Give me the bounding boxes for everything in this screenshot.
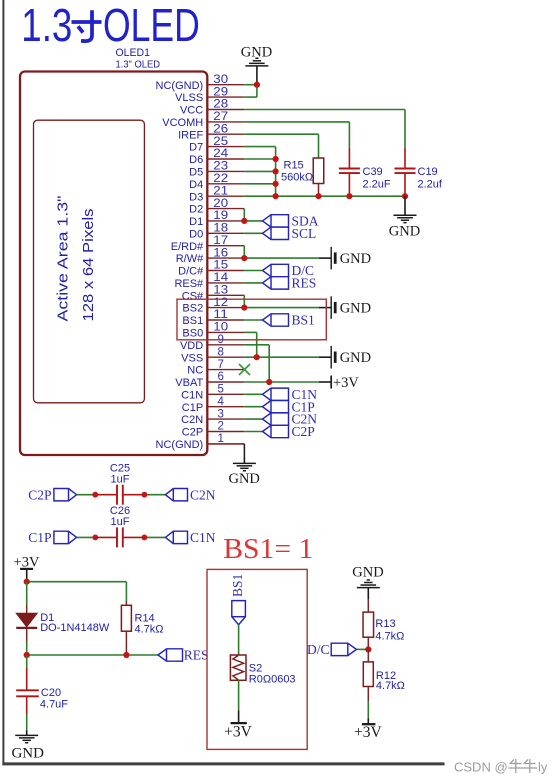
svg-text:D4: D4	[189, 179, 203, 191]
junction C19/bus	[402, 193, 408, 199]
port C1P	[263, 399, 315, 414]
wire D5 pin23	[244, 170, 275, 172]
svg-text:30: 30	[213, 74, 228, 86]
wire down to D1	[26, 582, 28, 605]
wire VDD pin9 down to VBAT	[244, 344, 269, 346]
resistor R12 4.7kΩ	[363, 649, 405, 701]
port C2P	[28, 487, 76, 502]
svg-text:8: 8	[217, 346, 223, 358]
junction D5	[273, 168, 279, 174]
junction R15/bus	[315, 193, 321, 199]
svg-text:1uF: 1uF	[111, 516, 130, 528]
port BS1 (vertical)	[230, 574, 246, 625]
pin 18 (D0)	[189, 223, 244, 241]
junction VDD/VBAT	[266, 379, 272, 385]
svg-text:21: 21	[213, 185, 228, 197]
port C2P	[263, 424, 315, 439]
svg-text:20: 20	[213, 198, 228, 210]
svg-text:560kΩ: 560kΩ	[281, 172, 313, 184]
svg-text:D/C#: D/C#	[178, 266, 204, 278]
component U OLED1 body	[20, 72, 207, 456]
resistor R13 4.7kΩ	[363, 599, 404, 649]
svg-text:VDD: VDD	[180, 340, 203, 352]
junction pin16/17	[241, 255, 247, 261]
svg-text:16: 16	[213, 247, 228, 259]
svg-text:GND: GND	[352, 565, 383, 581]
pin 8 (VSS)	[181, 346, 244, 364]
power ground GND (top, pins 30/29)	[241, 45, 272, 85]
pin 4 (C1P)	[182, 396, 245, 414]
svg-text:1uF: 1uF	[111, 473, 130, 485]
svg-text:14: 14	[213, 272, 228, 284]
pin 28 (VCC)	[180, 99, 244, 117]
wire BS1 pin11	[244, 319, 262, 321]
pin 16 (R/W#)	[176, 247, 245, 265]
junction R14/rail	[123, 652, 129, 658]
svg-text:25: 25	[213, 136, 228, 148]
svg-text:BS1: BS1	[182, 315, 203, 327]
svg-text:17: 17	[213, 235, 228, 247]
svg-text:C39: C39	[363, 166, 383, 178]
svg-text:IREF: IREF	[178, 129, 203, 141]
annotation box BS2/BS1/BS0	[177, 299, 326, 340]
port C1N	[165, 530, 215, 545]
pin 19 (D1)	[189, 210, 244, 228]
wire VSS pin8 to GND	[244, 356, 319, 358]
wire D2 pin20 down to D1	[243, 209, 245, 221]
svg-text:BS1= 1: BS1= 1	[223, 534, 313, 565]
pin 15 (D/C#)	[178, 260, 244, 278]
resistor R14 4.7kΩ	[121, 601, 163, 655]
pin 5 (C1N)	[181, 384, 244, 402]
junction +3V	[24, 579, 30, 585]
svg-text:11: 11	[213, 309, 228, 321]
wire BS1 to S2	[238, 625, 240, 655]
junction pin30/GND	[254, 82, 260, 88]
port C2N	[263, 412, 318, 427]
wire D1 to RES rail	[26, 641, 28, 655]
sheet left border	[2, 0, 4, 765]
port BS1	[263, 313, 315, 328]
svg-text:C1P: C1P	[28, 530, 51, 545]
wire pin4 to port C1P	[244, 406, 262, 408]
wire pin30 to GND junction	[244, 84, 257, 86]
power ground GND (above R13)	[352, 565, 383, 599]
wire VCC pin28 to C19	[244, 109, 405, 111]
svg-text:D0: D0	[189, 228, 203, 240]
svg-text:VLSS: VLSS	[175, 92, 203, 104]
svg-text:19: 19	[213, 210, 228, 222]
pin 14 (RES#)	[174, 272, 244, 290]
svg-text:GND: GND	[340, 350, 371, 366]
wire D0 pin18 to SCL	[244, 232, 262, 234]
svg-text:13: 13	[213, 285, 228, 297]
pin 7 (NC)	[187, 359, 244, 377]
svg-text:CSDN @: CSDN @	[454, 760, 508, 775]
power ground GND (C20)	[11, 731, 44, 762]
svg-text:OLED: OLED	[103, 0, 200, 51]
svg-text:R15: R15	[284, 159, 304, 171]
wire CS# pin13 down	[243, 295, 245, 307]
svg-text:BS0: BS0	[182, 328, 203, 340]
svg-text:C2P: C2P	[28, 487, 51, 502]
wire BS2 pin12 to GND	[244, 307, 319, 309]
wire IREF pin26 to R15	[244, 133, 318, 135]
svg-text:26: 26	[213, 123, 228, 135]
svg-text:128 x 64 Pixels: 128 x 64 Pixels	[81, 209, 97, 322]
pin 6 (VBAT)	[175, 371, 244, 389]
svg-text:+3V: +3V	[354, 724, 382, 741]
capacitor C39 2.2uF	[339, 148, 391, 196]
svg-text:ly: ly	[538, 760, 548, 775]
wire R12 to +3V	[367, 701, 369, 718]
svg-text:C19: C19	[418, 166, 438, 178]
svg-text:10: 10	[213, 322, 228, 334]
wire S2 to +3V	[238, 680, 240, 710]
junction right C25	[142, 492, 148, 498]
port C1N	[263, 387, 318, 402]
svg-text:29: 29	[213, 86, 228, 98]
pin 1 (NC(GND))	[156, 433, 245, 451]
sheet bottom border	[2, 762, 444, 765]
wire pin2 to port C2P	[244, 431, 262, 433]
wire R/W# pin16 to GND	[244, 257, 319, 259]
port D/C (right schematic)	[307, 642, 357, 657]
svg-text:D/C: D/C	[307, 642, 330, 657]
svg-text:D2: D2	[189, 204, 203, 216]
wire C20 to GND	[26, 714, 28, 731]
pin 27 (VCOMH)	[162, 111, 244, 129]
power +3V (R12)	[354, 718, 382, 741]
wire D4 pin22	[244, 183, 275, 185]
svg-text:4.7kΩ: 4.7kΩ	[135, 623, 164, 635]
pin 25 (D7)	[189, 136, 244, 154]
svg-text:18: 18	[213, 223, 228, 235]
pin 24 (D6)	[189, 148, 244, 166]
svg-text:4: 4	[217, 396, 224, 408]
svg-text:E/RD#: E/RD#	[171, 241, 204, 253]
pin 10 (BS0)	[182, 322, 244, 340]
capacitor C19 2.2uf	[395, 148, 443, 196]
svg-text:DO-1N4148W: DO-1N4148W	[40, 622, 110, 634]
pin 26 (IREF)	[178, 123, 244, 141]
svg-text:Active Area 1.3": Active Area 1.3"	[56, 196, 72, 322]
svg-text:GND: GND	[340, 251, 371, 267]
svg-text:R/W#: R/W#	[176, 253, 204, 265]
svg-text:1.3: 1.3	[21, 0, 72, 51]
svg-text:NC(GND): NC(GND)	[156, 439, 204, 451]
power ground GND (pin1)	[228, 458, 259, 488]
pin 9 (VDD)	[180, 334, 244, 352]
port C1P	[28, 530, 76, 545]
port C2N	[165, 487, 215, 502]
svg-text:22: 22	[213, 173, 228, 185]
junction right C26	[142, 535, 148, 541]
diode D1 DO-1N4148W	[16, 605, 110, 641]
svg-text:4.7uF: 4.7uF	[40, 699, 68, 711]
junction D6	[273, 156, 279, 162]
pin 13 (CS#)	[182, 285, 245, 303]
svg-text:15: 15	[213, 260, 228, 272]
svg-text:2.2uF: 2.2uF	[363, 178, 391, 190]
wire pin5 to port C1N	[244, 393, 262, 395]
power +3V bar (VBAT)	[331, 375, 359, 391]
svg-text:D5: D5	[189, 167, 203, 179]
junction R13/R12/DC	[365, 646, 371, 652]
svg-text:GND: GND	[340, 301, 371, 317]
capacitor C26 1uF	[110, 505, 130, 547]
pin 22 (D4)	[189, 173, 244, 191]
wire C26 to C1N	[123, 536, 145, 538]
svg-text:4.7kΩ: 4.7kΩ	[376, 680, 405, 692]
pin 21 (D3)	[189, 185, 244, 203]
svg-text:C2P: C2P	[182, 427, 203, 439]
svg-text:BS1: BS1	[230, 574, 245, 597]
svg-text:4.7kΩ: 4.7kΩ	[375, 630, 404, 642]
power GND bar (VSS)	[331, 346, 371, 369]
svg-text:RES: RES	[184, 648, 209, 663]
title text 1.3寸OLED	[21, 0, 200, 51]
port SDA	[263, 214, 319, 229]
svg-text:CS#: CS#	[182, 290, 204, 302]
svg-text:5: 5	[217, 384, 223, 396]
port D/C	[263, 263, 315, 278]
svg-text:24: 24	[213, 148, 228, 160]
wire +3V rail to R14	[27, 581, 127, 583]
wire D6 pin24	[244, 158, 275, 160]
svg-text:D3: D3	[189, 191, 203, 203]
svg-text:NC: NC	[187, 365, 203, 377]
pin 12 (BS2)	[182, 297, 244, 315]
pin 3 (C2N)	[181, 408, 244, 426]
svg-text:GND: GND	[11, 746, 44, 762]
junction BS0/VSS	[254, 354, 260, 360]
wire D3 rail pin21	[244, 195, 405, 197]
svg-text:D7: D7	[189, 142, 203, 154]
wire BS0 pin10 down to VSS	[244, 331, 256, 333]
svg-text:23: 23	[213, 161, 228, 173]
svg-text:+3V: +3V	[224, 724, 252, 741]
svg-text:SCL: SCL	[292, 226, 317, 241]
svg-text:BS2: BS2	[182, 303, 203, 315]
junction D3/bus	[273, 193, 279, 199]
svg-text:C1N: C1N	[181, 389, 203, 401]
svg-text:2.2uf: 2.2uf	[418, 178, 443, 190]
junction pin12/13	[241, 305, 247, 311]
resistor S2 R0Ω0603 (zigzag)	[230, 655, 295, 685]
OLED active-area inner rectangle	[34, 120, 145, 403]
power GND bar (R/W#)	[331, 247, 371, 270]
svg-text:C1P: C1P	[182, 402, 203, 414]
wire pin1 NC(GND) down	[207, 443, 244, 445]
svg-text:VSS: VSS	[181, 352, 203, 364]
svg-text:1.3" OLED: 1.3" OLED	[116, 58, 161, 70]
RES rail wire	[27, 654, 158, 656]
power ground GND (below C19)	[389, 196, 420, 239]
pin 23 (D5)	[189, 161, 244, 179]
pin 29 (VLSS)	[175, 86, 244, 104]
wire VCOMH pin27 to C39	[244, 121, 349, 123]
junction left C26	[92, 535, 98, 541]
svg-text:C1N: C1N	[190, 530, 216, 545]
pin 11 (BS1)	[182, 309, 244, 327]
pin 30 (NC(GND))	[156, 74, 245, 92]
resistor R15	[281, 158, 324, 196]
pin 2 (C2P)	[182, 421, 245, 439]
capacitor C25 1uF	[110, 463, 130, 505]
svg-text:3: 3	[217, 408, 223, 420]
annotation box S2/BS1	[207, 569, 307, 749]
svg-text:28: 28	[213, 99, 228, 111]
svg-text:NC(GND): NC(GND)	[156, 80, 204, 92]
pin 20 (D2)	[189, 198, 244, 216]
svg-text:GND: GND	[241, 45, 272, 61]
svg-text:D1: D1	[189, 216, 203, 228]
svg-text:GND: GND	[389, 224, 420, 240]
svg-text:R13: R13	[375, 618, 395, 630]
svg-text:RES#: RES#	[174, 278, 204, 290]
wire C25 to C2N	[123, 494, 145, 496]
wire C1P to C26	[77, 536, 96, 538]
power +3V (S2)	[224, 710, 252, 740]
svg-text:OLED1: OLED1	[116, 47, 151, 59]
wire D/C# pin15	[244, 270, 262, 272]
pin 17 (E/RD#)	[171, 235, 245, 253]
svg-text:VBAT: VBAT	[175, 377, 203, 389]
junction C39/bus	[346, 193, 352, 199]
wire VBAT pin6 to +3V	[244, 381, 319, 383]
svg-text:7: 7	[217, 359, 223, 371]
junction D4	[273, 181, 279, 187]
capacitor C20 4.7uF	[16, 668, 68, 714]
svg-text:GND: GND	[228, 471, 259, 487]
svg-text:C2N: C2N	[181, 414, 203, 426]
wire rail down to C20	[26, 655, 28, 668]
junction left C25	[92, 492, 98, 498]
junction D1/D2	[241, 218, 247, 224]
svg-text:27: 27	[213, 111, 228, 123]
wire D1 pin19 to SDA	[244, 220, 262, 222]
watermark CSDN @牛牛ly	[454, 759, 548, 775]
svg-text:2: 2	[217, 421, 223, 433]
svg-text:VCC: VCC	[180, 105, 203, 117]
wire E/RD# pin17 down	[243, 246, 245, 258]
wire D/C to divider	[357, 648, 369, 650]
svg-text:C2P: C2P	[292, 424, 315, 439]
svg-text:C2N: C2N	[190, 487, 216, 502]
svg-text:C20: C20	[41, 687, 61, 699]
wire pin29 up to pin30	[244, 96, 257, 98]
junction D1/rail	[24, 652, 30, 658]
wire pin3 to port C2N	[244, 418, 262, 420]
no-connect X pin7	[239, 364, 250, 375]
svg-text:RES: RES	[292, 276, 317, 291]
wire D7 pin25 down to bus	[244, 146, 275, 148]
svg-text:VCOMH: VCOMH	[162, 117, 203, 129]
port SCL	[263, 226, 317, 241]
svg-text:+3V: +3V	[333, 375, 359, 391]
svg-text:BS1: BS1	[292, 313, 315, 328]
port RES	[263, 276, 317, 291]
wire RES# pin14	[244, 282, 262, 284]
svg-text:6: 6	[217, 371, 223, 383]
port RES (left schematic)	[158, 648, 208, 663]
power +3V (top-left)	[14, 555, 40, 582]
svg-text:R0Ω0603: R0Ω0603	[249, 673, 296, 685]
wire C2P to C25	[77, 494, 96, 496]
svg-text:D6: D6	[189, 154, 203, 166]
power GND bar (BS2)	[331, 296, 371, 319]
